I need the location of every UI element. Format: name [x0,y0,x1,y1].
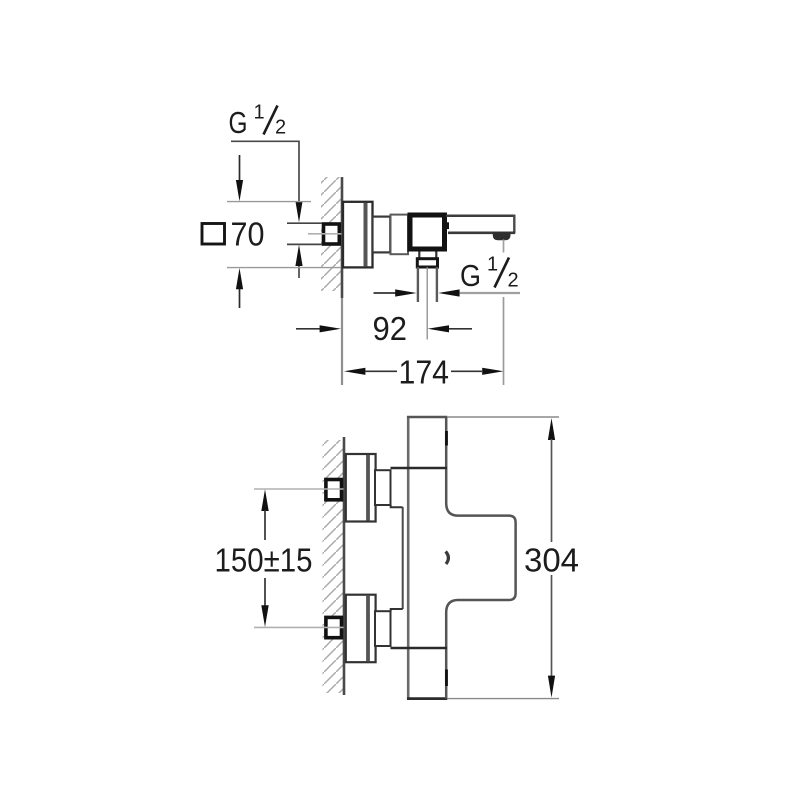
G 1/2 outlet dimension arrows [374,289,521,296]
spout (top view) [446,215,515,233]
svg-text:174: 174 [399,354,450,391]
svg-text:1: 1 [254,102,265,124]
bottom union centerline [254,626,344,628]
bold edge accent lower [445,670,448,687]
174 right extension line (spout outlet axis) [503,297,505,385]
body left edge (front view) [407,416,410,700]
wall line (top view) [341,177,344,298]
escutcheon plate (top view) [343,202,373,268]
body joint line lower [391,647,448,649]
top union connector [375,470,391,505]
body bottom edge [407,697,447,700]
dimension 304 [524,418,579,698]
top union centerline [254,488,344,490]
body top edge [407,416,447,419]
dimension 70: lower arrow [236,268,243,308]
aerator centerline [503,240,505,253]
label G 1/2 (shower outlet) [460,254,519,294]
wall union nut (top view) [324,224,340,244]
body right side with wide spout block [446,417,515,699]
top union step to body [391,505,403,507]
shower outlet collar nut (top view) [417,259,437,267]
svg-text:70: 70 [231,216,265,253]
bottom union nut (front view) [326,617,342,637]
shower outlet neck (top view) [419,252,436,259]
svg-text:2: 2 [275,117,286,139]
wall extension line (top view) [341,298,343,385]
top union escutcheon (front view) [346,454,376,522]
bottom union escutcheon (front view) [346,595,376,663]
svg-text:92: 92 [373,310,408,347]
dimension 304 extension lines [448,417,560,699]
svg-text:1: 1 [487,254,498,276]
shower outlet pipe walls (top view) [418,267,437,302]
svg-text:150±15: 150±15 [215,542,313,579]
wall hatching (top view) [321,177,341,291]
bottom union connector [375,611,391,646]
shaft section 2 (top view) [391,215,409,255]
leader line from G 1/2 to nut [231,141,303,278]
bottom union step to body [391,609,403,611]
svg-text:304: 304 [524,542,579,579]
body joint line upper [391,467,448,469]
top union nut (front view) [326,480,342,500]
spout aerator nub [494,233,510,239]
dimension 92 [296,310,472,347]
mixer body cube (top view) [410,215,445,249]
dimension 174 [344,354,504,391]
label G 1/2 (wall connection) [229,102,287,141]
nut centerline (top view) [308,233,342,235]
shower outlet centerline [426,267,428,340]
wall hatching (front view) [323,440,344,693]
dimension 150±15 [215,489,313,627]
shaft section 1 (top view) [373,216,391,254]
dimension 70: upper arrow [236,155,243,201]
small logo mark on body [446,552,449,565]
square symbol of 70 [202,224,225,245]
nut extension lines (top view) [287,223,322,244]
svg-text:G: G [460,258,481,293]
dimension 70: extension lines [227,202,341,268]
bold edge accent upper [445,431,448,446]
wall line (front view) [343,437,346,695]
handle nub on cube right edge [446,222,449,229]
svg-text:G: G [229,105,248,140]
svg-text:2: 2 [508,270,519,292]
vertical edge between unions [402,507,404,609]
